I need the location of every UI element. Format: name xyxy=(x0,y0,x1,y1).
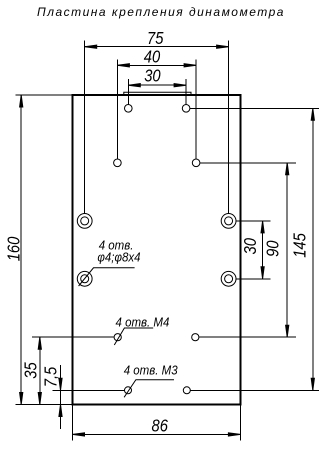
extension line M3 row right y=390.3 xyxy=(190,389,319,391)
dim text 86 xyxy=(151,416,168,436)
label 4 отв. М4 xyxy=(116,315,170,330)
extension line M4 row left y=337.2 xyxy=(32,336,114,338)
dim text 35 xyxy=(21,362,41,379)
svg-text:86: 86 xyxy=(151,416,168,436)
extension line x=117.4 (40 dim left) xyxy=(116,59,118,159)
extension line x=186.1 (30 dim right) xyxy=(185,79,187,105)
extension line x=128.3 (30 dim left) xyxy=(127,79,129,105)
counterbore hole CB-LU xyxy=(77,214,92,229)
svg-text:30: 30 xyxy=(144,66,160,86)
hole M4-L xyxy=(114,334,121,341)
extension line x=84.7 (75 dim left) xyxy=(84,40,86,213)
svg-text:4 отв. М4: 4 отв. М4 xyxy=(116,315,170,330)
svg-text:160: 160 xyxy=(4,237,24,262)
dim text 160 xyxy=(4,237,24,262)
hole S1 xyxy=(114,159,122,167)
dimension line 75 xyxy=(85,45,229,48)
hole T1 xyxy=(125,105,133,113)
svg-text:40: 40 xyxy=(144,47,160,67)
svg-text:φ4;φ8х4: φ4;φ8х4 xyxy=(97,250,140,265)
title: Пластина крепления динамометра xyxy=(37,5,285,19)
leader for counterbore label xyxy=(79,268,135,286)
dimension line 145 xyxy=(311,108,314,390)
svg-text:145: 145 xyxy=(290,232,310,257)
top tab xyxy=(124,92,191,95)
svg-text:Пластина крепления динамометра: Пластина крепления динамометра xyxy=(37,5,285,19)
svg-text:75: 75 xyxy=(147,29,164,49)
dimension line 160 xyxy=(20,95,23,405)
label 4 отв. М3 xyxy=(124,363,178,378)
plate outline xyxy=(73,95,241,405)
label 4 отв. Ф4;Ф8х4 xyxy=(97,238,140,265)
dimension line 35 xyxy=(38,337,41,404)
dim text 75 xyxy=(147,29,164,49)
dimension line 86 xyxy=(73,433,241,436)
dim text 90 xyxy=(263,240,283,256)
dim text 145 xyxy=(290,232,310,257)
extension line second row right y=162.8 xyxy=(200,162,296,164)
extension line bottom right x=240.4 xyxy=(239,406,241,441)
dim text 7,5 xyxy=(41,366,61,387)
dim text 30 top xyxy=(144,66,160,86)
dimension line 40 xyxy=(117,64,196,67)
hole T2 xyxy=(182,105,190,113)
svg-text:90: 90 xyxy=(263,240,283,256)
hole M3-L xyxy=(125,387,132,394)
hole M3-R xyxy=(183,387,190,394)
extension line bottom left x=72.5 xyxy=(72,406,74,441)
hole M4-R xyxy=(192,334,199,341)
leader for M4 label xyxy=(114,328,153,345)
extension line left bottom y=404.5 xyxy=(16,404,72,406)
dim text 30 right xyxy=(241,238,261,254)
svg-text:35: 35 xyxy=(21,362,41,379)
dimension line 7,5 (arrows outside) xyxy=(59,365,62,429)
dimension line 30 right xyxy=(261,221,264,279)
svg-text:30: 30 xyxy=(241,238,261,254)
svg-text:4 отв. М3: 4 отв. М3 xyxy=(124,363,178,378)
counterbore hole CB-RU xyxy=(221,214,236,229)
extension line CB bottom row right y=278.8 xyxy=(236,278,271,280)
dimension line 30 top xyxy=(128,84,186,87)
extension line x=228.6 (75 dim right) xyxy=(228,40,230,213)
dim text 40 xyxy=(144,47,160,67)
extension line x=196.1 (40 dim right) xyxy=(195,59,197,159)
hole S2 xyxy=(192,159,200,167)
svg-text:7,5: 7,5 xyxy=(41,366,61,387)
extension line M3 row left y=390.3 xyxy=(52,389,124,391)
counterbore hole CB-RL xyxy=(221,271,236,286)
extension line top hole row right y=108.3 xyxy=(190,107,319,109)
counterbore hole CB-LL xyxy=(77,271,92,286)
dimension line 90 xyxy=(286,163,289,337)
extension line left top y=95 xyxy=(16,94,72,96)
leader for M3 label xyxy=(124,380,174,398)
extension line M4 row right y=337.2 xyxy=(199,336,296,338)
extension line CB top row right y=220.9 xyxy=(236,220,271,222)
